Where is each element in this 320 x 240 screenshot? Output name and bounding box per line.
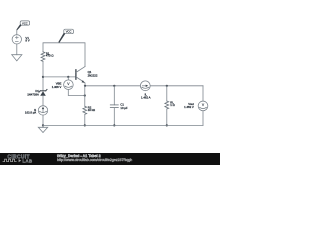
- svg-text:1N4739A: 1N4739A: [27, 92, 39, 96]
- wire: emitter rail: [85, 85, 203, 87]
- wire: I1 to ground rail: [42, 115, 44, 125]
- wire: base wire to voltmeter VBE: [67, 77, 69, 80]
- svg-text:1.482 A: 1.482 A: [141, 96, 151, 100]
- svg-text:LAB: LAB: [23, 158, 33, 163]
- svg-text:9 V: 9 V: [25, 39, 29, 43]
- label D1 1N4739A: [27, 89, 39, 97]
- label Vout 1.482 V: [184, 102, 194, 109]
- label V1 9 V: [25, 36, 29, 43]
- svg-text:http://www.circuitlab.com/circ: http://www.circuitlab.com/circuit/c2gez2…: [57, 158, 132, 162]
- power flag VCC (net VCC, at top rail): [58, 29, 73, 43]
- label C1 10 uF: [120, 102, 127, 110]
- wire: Vout branch (right edge): [202, 86, 204, 101]
- svg-text:1 Ω: 1 Ω: [170, 103, 174, 107]
- voltmeter VBE: [64, 80, 74, 90]
- ground (below I1): [38, 125, 47, 132]
- label I1 163.8 uA: [25, 108, 37, 115]
- svg-text:1.308 V: 1.308 V: [52, 85, 62, 89]
- wire: R2 branch: [84, 86, 86, 107]
- resistor R1: [41, 52, 45, 62]
- wire: VBE bottom to emitter branch: [68, 90, 85, 96]
- node: base junction: [42, 76, 44, 78]
- transistor Q1 (NPN): [76, 67, 85, 86]
- resistor R2: [83, 106, 87, 114]
- node: emitter rail at RL: [166, 85, 168, 87]
- voltage source V1: [12, 35, 21, 44]
- svg-text:163.8 µA: 163.8 µA: [25, 111, 36, 115]
- wire: base node to Q1 base: [43, 76, 76, 78]
- svg-text:VCC: VCC: [66, 30, 72, 34]
- node: VBE tap on base wire: [67, 76, 69, 78]
- label RL 1 Ohm: [170, 101, 174, 107]
- node: emitter rail at R2: [84, 85, 86, 87]
- label Q1 2N2222: [88, 70, 98, 77]
- wire: ground rail (bottom): [43, 124, 203, 126]
- ammeter I1: [38, 106, 47, 115]
- node: ground rail at C1: [113, 124, 115, 126]
- svg-text:470 Ω: 470 Ω: [46, 54, 54, 58]
- label IL 1.482 A: [141, 93, 151, 100]
- node: ground rail at R2: [84, 124, 86, 126]
- wire: RL top lead: [166, 86, 168, 101]
- wire: top rail (VCC net): [43, 43, 85, 67]
- node: ground rail junction: [42, 124, 44, 126]
- voltmeter Vout: [198, 101, 208, 111]
- node: VBE to emitter branch junction: [84, 94, 86, 96]
- power flag VCC (net VCC, at V1): [16, 21, 29, 30]
- wire: RL bottom to ground rail: [166, 109, 168, 125]
- svg-text:VCC: VCC: [22, 21, 28, 25]
- wire: VCC flag to V1 plus terminal: [16, 30, 18, 35]
- wire: D1 anode to ammeter I1: [42, 96, 44, 106]
- ground (below V1): [12, 55, 22, 61]
- node: ground rail at RL: [166, 124, 168, 126]
- svg-text:1.482 V: 1.482 V: [184, 105, 194, 109]
- footer text: url: [57, 158, 132, 162]
- wire: C1 bottom lead: [113, 108, 115, 126]
- resistor RL: [165, 101, 169, 109]
- wire: V1 minus to ground: [16, 44, 18, 55]
- node: emitter rail at C1: [113, 85, 115, 87]
- wire: C1 top lead: [113, 86, 115, 105]
- label R1 470 Ohm: [46, 51, 54, 57]
- label R2 10 kOhm: [88, 106, 95, 112]
- label VBE 1.308 V: [52, 82, 62, 90]
- footer text: title: [57, 154, 101, 158]
- footer bar: [0, 153, 220, 165]
- svg-text:2N2222: 2N2222: [88, 73, 98, 77]
- ammeter IL: [140, 81, 150, 91]
- wire: R1 bottom to base node: [42, 61, 44, 90]
- wire: Vout bottom lead: [202, 111, 204, 126]
- CircuitLab logo: [3, 154, 33, 163]
- svg-text:10 µF: 10 µF: [120, 106, 127, 110]
- wire: R2 bottom to ground rail: [84, 114, 86, 125]
- svg-text:10 kΩ: 10 kΩ: [88, 108, 95, 112]
- capacitor C1: [110, 105, 118, 108]
- diode D1 (zener): [39, 89, 47, 95]
